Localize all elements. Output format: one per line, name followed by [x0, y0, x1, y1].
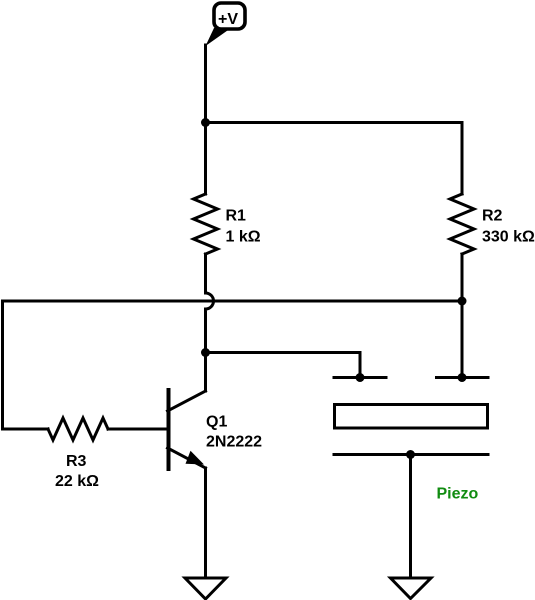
- node R2 bottom junction: [458, 297, 467, 306]
- piezo disc plate rectangle: [335, 405, 488, 429]
- piezo top-right terminal bar: [437, 376, 489, 379]
- node piezo top-left: [356, 373, 365, 382]
- transistor Q1 collector diagonal: [168, 391, 206, 411]
- svg-text:Q1: Q1: [206, 414, 227, 431]
- wire supply vertical: [204, 45, 207, 123]
- power flag +V box: [214, 3, 245, 29]
- wire emitter vertical: [204, 468, 207, 578]
- svg-text:R3: R3: [66, 453, 87, 470]
- wire R3 left lead: [3, 428, 49, 431]
- piezo top-left terminal bar: [334, 376, 386, 379]
- resistor R3: [48, 418, 108, 440]
- svg-text:R1: R1: [226, 208, 247, 225]
- svg-text:1 kΩ: 1 kΩ: [226, 229, 261, 246]
- transistor Q1 emitter diagonal: [168, 448, 206, 468]
- ground piezo: [391, 578, 432, 599]
- wire feedback rail horizontal: [3, 300, 463, 303]
- power flag pointer wedge: [206, 28, 232, 46]
- resistor R1: [194, 194, 218, 254]
- svg-text:2N2222: 2N2222: [206, 434, 262, 451]
- wire R3 right lead / base wire: [108, 428, 167, 431]
- transistor Q1 base bar: [167, 390, 171, 469]
- resistor R2: [450, 194, 474, 254]
- wire R1 top lead: [204, 123, 207, 195]
- wire piezo to ground: [409, 455, 412, 579]
- transistor Q1 emitter arrow: [186, 451, 205, 465]
- wire collector vertical: [204, 353, 207, 392]
- wire left feedback vertical: [1, 301, 4, 429]
- node piezo top-right: [458, 373, 467, 382]
- node supply junction: [201, 118, 210, 127]
- wire R2 top lead: [461, 123, 464, 195]
- wire top rail horizontal: [206, 121, 463, 124]
- wire collector to piezo top: [206, 353, 361, 378]
- piezo bottom electrode line: [334, 453, 488, 456]
- svg-text:330 kΩ: 330 kΩ: [482, 229, 535, 246]
- wire R2 junction to piezo top: [461, 301, 464, 378]
- node piezo bottom: [406, 450, 415, 459]
- ground emitter: [185, 578, 226, 599]
- svg-text:R2: R2: [482, 208, 503, 225]
- svg-text:Piezo: Piezo: [437, 486, 479, 503]
- svg-text:22 kΩ: 22 kΩ: [55, 473, 99, 490]
- node collector junction: [201, 348, 210, 357]
- svg-text:+V: +V: [218, 11, 238, 28]
- wire R1 bottom lead with hop over feedback rail: [206, 254, 214, 353]
- wire R2 bottom lead: [461, 254, 464, 301]
